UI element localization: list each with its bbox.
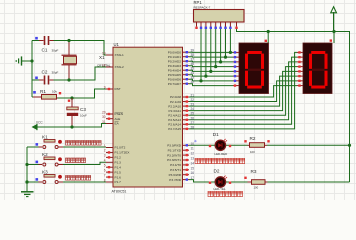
display2 common pin — [330, 39, 332, 41]
svg-text:11: 11 — [191, 147, 195, 151]
power VCC terminal — [32, 121, 44, 131]
node VCC C3 junction — [70, 125, 73, 128]
svg-text:30: 30 — [102, 115, 106, 119]
svg-text:P2.2/A10: P2.2/A10 — [168, 104, 181, 108]
svg-text:P1.0/T2: P1.0/T2 — [115, 146, 126, 150]
wire RP1 pull-up verticals — [199, 29, 232, 82]
label R1 — [40, 89, 46, 94]
svg-text:18: 18 — [102, 63, 106, 67]
svg-text:8: 8 — [104, 178, 106, 182]
svg-text:P2.4/A12: P2.4/A12 — [168, 113, 181, 117]
svg-text:P0.6/AD6: P0.6/AD6 — [168, 77, 182, 81]
wire K2 to P1.3 — [59, 162, 107, 164]
svg-text:9: 9 — [104, 85, 106, 89]
wire K3 to P1.7 — [59, 181, 107, 183]
wire R1 to RST — [58, 89, 107, 98]
wire VCC rail to EA — [37, 124, 106, 128]
svg-text:C3: C3 — [80, 107, 86, 112]
wire bus P0 to display1 — [189, 52, 233, 85]
label R2 — [250, 136, 256, 141]
R3 pin marks — [244, 177, 246, 179]
value R2 — [250, 150, 255, 154]
wire R1 left to rail — [32, 96, 33, 98]
svg-text:7: 7 — [104, 173, 106, 177]
wire C3 top lead — [71, 98, 73, 107]
node K3 rail junction — [25, 180, 28, 183]
svg-text:33: 33 — [191, 76, 195, 80]
svg-text:P2.3/A11: P2.3/A11 — [169, 109, 182, 113]
switch K3 — [39, 175, 64, 184]
display2 pins — [297, 51, 303, 87]
node crystal bottom junction — [67, 78, 70, 81]
svg-text:RST: RST — [115, 87, 121, 91]
svg-text:P2.6/A14: P2.6/A14 — [168, 123, 181, 127]
wire VCC top bus — [237, 29, 350, 182]
resistor R1 — [32, 95, 58, 100]
display1 common pin — [265, 40, 267, 42]
label LED-YEL — [214, 187, 226, 191]
svg-text:2: 2 — [104, 149, 106, 153]
wire display2 common drop — [333, 32, 335, 44]
label C3 — [80, 107, 86, 112]
7-segment display 2 — [303, 43, 332, 94]
svg-text:AT89C51: AT89C51 — [112, 190, 127, 194]
node display1 common junction — [267, 30, 270, 33]
svg-text:28: 28 — [191, 125, 195, 129]
svg-text:RP1: RP1 — [194, 0, 203, 5]
svg-text:XTAL2: XTAL2 — [115, 65, 125, 69]
svg-text:30pF: 30pF — [52, 49, 59, 53]
svg-text:P3.3/INT1: P3.3/INT1 — [167, 158, 181, 162]
label D1 chinese — [195, 158, 245, 163]
svg-text:31: 31 — [102, 120, 106, 124]
wire crystal top lead — [68, 41, 70, 56]
svg-text:32: 32 — [191, 80, 195, 84]
node K2 rail junction — [25, 163, 28, 166]
node R1 blue mark — [33, 91, 36, 94]
wire C2 net to XTAL2 — [54, 67, 107, 80]
svg-text:14: 14 — [191, 161, 195, 165]
svg-text:P1.6: P1.6 — [115, 175, 122, 179]
label U1 — [114, 42, 120, 47]
svg-text:P2.5/A13: P2.5/A13 — [168, 118, 181, 122]
label X1 — [99, 55, 105, 60]
node K2 blue mark — [36, 161, 39, 164]
svg-text:1: 1 — [104, 144, 106, 148]
wire K rail — [26, 147, 28, 192]
svg-text:P0.4/AD4: P0.4/AD4 — [168, 68, 182, 72]
capacitor C2 — [39, 76, 54, 85]
RP1 pins — [195, 22, 237, 29]
svg-text:34: 34 — [191, 71, 195, 75]
node crystal top junction — [67, 39, 70, 42]
svg-text:D1: D1 — [213, 132, 219, 137]
wire bus P2 to display2 — [189, 52, 297, 128]
svg-text:U1: U1 — [114, 42, 120, 47]
wire D2 to R3 — [226, 181, 248, 183]
svg-text:P0.1/AD1: P0.1/AD1 — [168, 55, 182, 59]
wire C1 net to XTAL1 — [54, 41, 107, 56]
D2 pin marks — [209, 182, 231, 184]
label K3 chinese — [66, 176, 91, 181]
LED D1 — [215, 139, 227, 151]
node net mark (blue asterisk) — [194, 139, 198, 144]
svg-text:30pF: 30pF — [52, 71, 59, 75]
svg-text:100: 100 — [250, 150, 255, 154]
svg-text:PSEN: PSEN — [115, 112, 123, 116]
svg-text:21: 21 — [191, 94, 195, 98]
node K3 blue mark — [36, 178, 39, 181]
svg-text:38: 38 — [191, 53, 195, 57]
svg-text:P0.2/AD2: P0.2/AD2 — [168, 59, 182, 63]
wire ground rail left — [32, 41, 39, 98]
svg-text:P0.3/AD3: P0.3/AD3 — [168, 64, 182, 68]
svg-text:25: 25 — [191, 112, 195, 116]
svg-text:39: 39 — [191, 49, 195, 53]
svg-text:LED-YEL: LED-YEL — [214, 187, 226, 191]
svg-text:RESPACK-7: RESPACK-7 — [194, 5, 211, 9]
svg-text:VCC: VCC — [36, 121, 43, 125]
label AT89C51 — [112, 190, 127, 194]
wire K2 left — [27, 164, 42, 166]
capacitor C3 — [67, 100, 78, 117]
svg-text:P1.5: P1.5 — [115, 170, 122, 174]
label RP1 — [194, 0, 203, 5]
resistor R3 — [248, 180, 268, 185]
svg-text:16: 16 — [191, 171, 195, 175]
capacitor C1 — [39, 36, 54, 45]
svg-text:35: 35 — [191, 67, 195, 71]
resistor pack RP1 — [194, 10, 245, 23]
power VCC (top right) — [331, 7, 337, 32]
svg-text:P1.1/T2EX: P1.1/T2EX — [115, 151, 130, 155]
label LED-RED — [215, 152, 228, 156]
svg-text:C2: C2 — [42, 70, 48, 75]
svg-text:LED-RED: LED-RED — [215, 152, 228, 156]
wire P3.7 to D2 — [189, 180, 215, 182]
label K2 chinese — [66, 158, 86, 163]
label K3 — [42, 170, 48, 175]
svg-text:K2: K2 — [42, 152, 48, 157]
svg-text:P3.1/TXD: P3.1/TXD — [168, 148, 182, 152]
svg-text:P3.6/WR: P3.6/WR — [169, 173, 182, 177]
LED D2 — [215, 176, 227, 188]
svg-text:29: 29 — [102, 110, 106, 114]
svg-text:P1.7: P1.7 — [115, 180, 122, 184]
wire K1 to P1.0 — [59, 146, 107, 148]
svg-text:13: 13 — [191, 157, 195, 161]
microcontroller U1 body — [113, 47, 183, 187]
node C1 blue mark — [35, 37, 38, 40]
svg-text:37: 37 — [191, 58, 195, 62]
svg-text:P3.0/RXD: P3.0/RXD — [167, 144, 182, 148]
value C3 10uF — [80, 114, 87, 118]
svg-text:P0.7/AD7: P0.7/AD7 — [168, 82, 182, 86]
svg-text:P2.7/A15: P2.7/A15 — [168, 127, 181, 131]
svg-text:5: 5 — [104, 164, 106, 168]
label D1 — [213, 132, 219, 137]
svg-text:D2: D2 — [214, 168, 220, 173]
svg-text:K1: K1 — [42, 135, 48, 140]
svg-text:P3.4/T0: P3.4/T0 — [170, 163, 181, 167]
display1 pins — [233, 51, 239, 87]
svg-text:23: 23 — [191, 103, 195, 107]
svg-text:✳: ✳ — [194, 139, 198, 144]
label R3 — [251, 169, 257, 174]
svg-text:100: 100 — [254, 186, 259, 190]
svg-text:22: 22 — [191, 98, 195, 102]
svg-text:C1: C1 — [42, 48, 48, 53]
node R1 red mark — [59, 92, 61, 94]
ground (buttons) — [21, 180, 34, 196]
svg-text:10k: 10k — [52, 90, 57, 94]
label D2 chinese — [208, 191, 243, 196]
svg-text:XTAL1: XTAL1 — [115, 53, 125, 57]
value C2 30pF — [52, 71, 59, 75]
svg-text:P1.3: P1.3 — [115, 160, 122, 164]
node C3 top junction — [70, 96, 73, 99]
label C2 — [42, 70, 48, 75]
value C1 30pF — [52, 49, 59, 53]
svg-text:4: 4 — [104, 159, 106, 163]
resistor R2 — [248, 143, 268, 148]
switch K1 — [39, 140, 64, 149]
svg-text:P3.5/T1: P3.5/T1 — [170, 168, 181, 172]
svg-text:6: 6 — [104, 168, 106, 172]
svg-text:R2: R2 — [250, 136, 256, 141]
node display2 common junction — [332, 30, 335, 33]
node C2 blue mark — [35, 77, 38, 80]
svg-text:10uF: 10uF — [80, 114, 87, 118]
svg-text:27: 27 — [191, 121, 195, 125]
svg-text:P1.2: P1.2 — [115, 156, 122, 160]
label K1 — [42, 135, 48, 140]
node gnd rail junction — [30, 59, 33, 62]
svg-text:P1.4: P1.4 — [115, 165, 122, 169]
svg-text:19: 19 — [102, 51, 106, 55]
wire display1 common drop — [267, 32, 269, 44]
svg-text:P2.0/A8: P2.0/A8 — [170, 95, 181, 99]
svg-text:17: 17 — [191, 176, 195, 180]
value R1 10k — [52, 90, 57, 94]
chip U1 left pins — [102, 51, 130, 184]
svg-text:36: 36 — [191, 62, 195, 66]
svg-text:24: 24 — [191, 107, 195, 111]
wire P3.0 to D1 — [189, 144, 215, 146]
wire C3 bottom lead — [71, 116, 73, 127]
wire D1 to R2 — [226, 144, 248, 146]
label K2 — [42, 152, 48, 157]
svg-text:K3: K3 — [42, 170, 48, 175]
node R2 net junction — [348, 144, 351, 147]
R2 pin marks — [244, 140, 269, 142]
label CRYSTAL — [97, 64, 111, 68]
D1 pin marks — [209, 145, 231, 147]
svg-text:P0.5/AD5: P0.5/AD5 — [168, 73, 182, 77]
svg-text:P3.2/INT0: P3.2/INT0 — [167, 153, 181, 157]
svg-text:R1: R1 — [40, 89, 46, 94]
wire R2 to VCC vertical — [267, 144, 350, 146]
svg-text:R3: R3 — [251, 169, 257, 174]
node K1 blue mark — [36, 143, 39, 146]
switch K2 — [39, 157, 64, 166]
svg-text:3: 3 — [104, 154, 106, 158]
svg-text:26: 26 — [191, 116, 195, 120]
label K1 chinese — [66, 141, 102, 146]
svg-text:15: 15 — [191, 166, 195, 170]
7-segment display 1 — [239, 43, 269, 94]
wire K1 left — [27, 146, 42, 148]
ground (crystal section) — [16, 56, 21, 65]
svg-text:P3.7/RD: P3.7/RD — [169, 178, 181, 182]
label D2 — [214, 168, 220, 173]
svg-text:P0.0/AD0: P0.0/AD0 — [168, 50, 182, 54]
wire crystal bottom lead — [68, 65, 70, 81]
chip U1 right pins — [167, 49, 194, 182]
label C1 — [42, 48, 48, 53]
svg-text:P2.1/A9: P2.1/A9 — [170, 100, 181, 104]
wire ground tap — [22, 60, 33, 62]
svg-text:X1: X1 — [99, 55, 105, 60]
svg-text:12: 12 — [191, 152, 195, 156]
wire K3 left — [27, 181, 42, 183]
svg-text:ALE: ALE — [115, 117, 121, 121]
crystal X1 — [62, 55, 77, 65]
wire R3 to VCC vertical — [267, 181, 350, 183]
value R3 — [254, 186, 259, 190]
label RESPACK-7 — [194, 5, 211, 9]
